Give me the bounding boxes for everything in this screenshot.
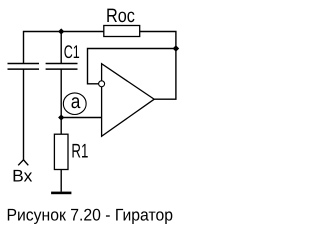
svg-text:a: a [71, 91, 81, 113]
svg-text:Вх: Вх [12, 166, 33, 185]
svg-text:Рисунок 7.20 - Гиратор: Рисунок 7.20 - Гиратор [7, 206, 174, 225]
svg-text:Roc: Roc [106, 5, 135, 27]
svg-text:C1: C1 [64, 41, 80, 62]
svg-text:R1: R1 [71, 141, 88, 163]
